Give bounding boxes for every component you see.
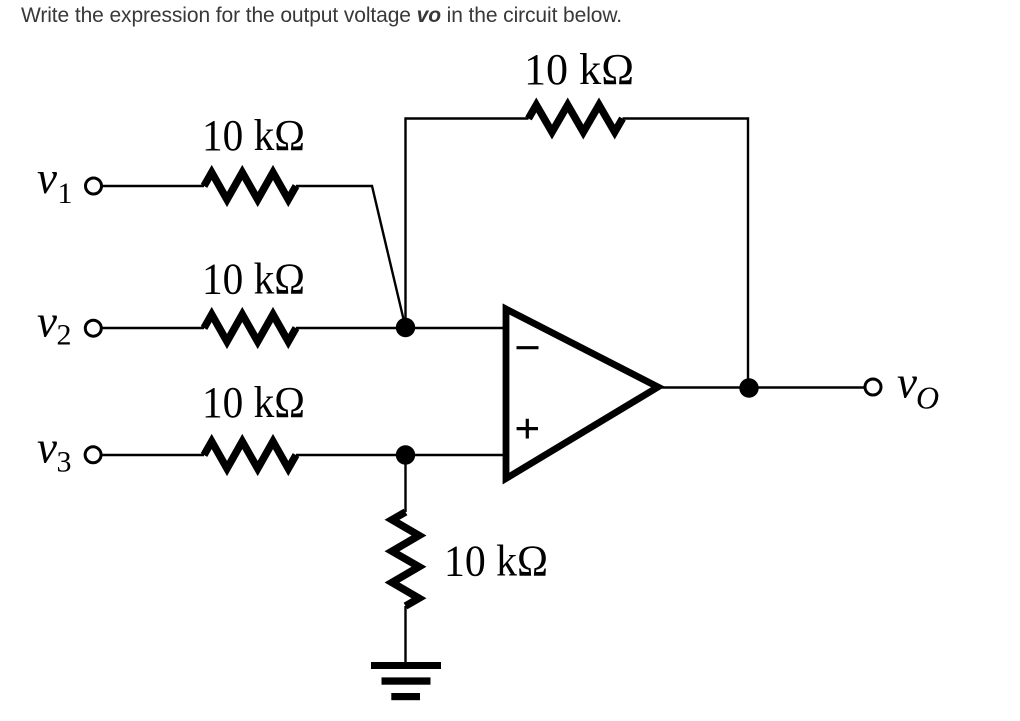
svg-text:v: v bbox=[897, 358, 917, 408]
svg-text:v: v bbox=[37, 153, 57, 203]
svg-text:10 kΩ: 10 kΩ bbox=[444, 536, 548, 585]
svg-text:3: 3 bbox=[57, 445, 72, 478]
svg-text:10 kΩ: 10 kΩ bbox=[202, 255, 305, 304]
svg-text:10 kΩ: 10 kΩ bbox=[202, 111, 305, 160]
svg-text:v: v bbox=[37, 297, 57, 347]
svg-text:10 kΩ: 10 kΩ bbox=[524, 45, 634, 94]
svg-text:10 kΩ: 10 kΩ bbox=[202, 378, 305, 427]
svg-text:O: O bbox=[916, 380, 939, 416]
svg-text:2: 2 bbox=[57, 319, 72, 352]
svg-text:1: 1 bbox=[58, 177, 73, 210]
svg-text:v: v bbox=[37, 423, 57, 473]
